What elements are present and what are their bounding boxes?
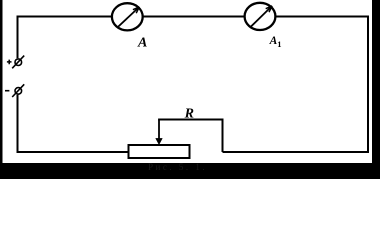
wiper arrow of rheostat R (156, 120, 163, 145)
ammeter A (112, 3, 143, 30)
label − (5, 90, 9, 92)
ammeter A1 (245, 3, 276, 30)
wire from − terminal down left side and along bottom to rheostat R (18, 95, 129, 152)
svg-text:A: A (137, 35, 147, 50)
terminal − (12, 84, 24, 97)
wire from ammeter A1 along top, down right side, and along bottom to rheostat tap junction (223, 17, 369, 153)
terminal + (12, 56, 24, 69)
svg-text:R: R (184, 107, 194, 122)
wire from wiper to bottom-right net (158, 120, 222, 153)
label + (7, 60, 12, 65)
svg-text:Рис. 5. 1.: Рис. 5. 1. (148, 162, 207, 172)
wire from + terminal up left side and along top to ammeter A (18, 17, 112, 59)
wire between ammeter A and ammeter A1 (143, 16, 244, 18)
rheostat R (resistor box) (129, 145, 190, 158)
